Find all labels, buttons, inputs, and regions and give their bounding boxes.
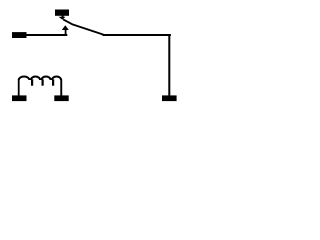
wire (from terminal A to below switch) xyxy=(27,34,68,36)
arrow (contact pointer below bar, pointing down) xyxy=(59,15,66,19)
arrow (pointing up at switch blade) xyxy=(62,25,69,30)
switch S fixed contact bar xyxy=(55,10,69,16)
terminal C (coil left pad) xyxy=(12,95,27,101)
terminal A (left input pad) xyxy=(12,32,27,38)
wire (vertical riser toward switch blade) xyxy=(65,30,67,37)
wire (top horizontal run to the right) xyxy=(103,34,171,36)
switch S blade (diagonal arm) xyxy=(63,19,103,34)
terminal D (coil right pad) xyxy=(54,95,68,101)
wire (right vertical drop) xyxy=(168,35,170,96)
terminal B (bottom right pad) xyxy=(162,95,177,101)
inductor L (coil with four loops) xyxy=(18,77,62,96)
